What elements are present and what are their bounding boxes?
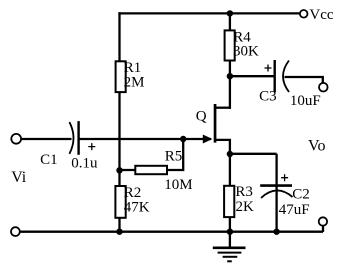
svg-text:10M: 10M bbox=[164, 177, 192, 193]
svg-text:C2: C2 bbox=[292, 187, 310, 203]
svg-text:R2: R2 bbox=[124, 185, 142, 201]
svg-text:47uF: 47uF bbox=[279, 202, 310, 218]
svg-text:Vi: Vi bbox=[11, 169, 27, 186]
svg-text:Vo: Vo bbox=[308, 137, 326, 154]
svg-text:R3: R3 bbox=[235, 184, 253, 200]
svg-text:2K: 2K bbox=[236, 199, 255, 215]
svg-text:30K: 30K bbox=[233, 44, 259, 60]
svg-text:Q: Q bbox=[196, 109, 207, 125]
svg-text:0.1u: 0.1u bbox=[71, 156, 98, 172]
svg-text:47K: 47K bbox=[124, 200, 150, 216]
svg-text:R5: R5 bbox=[165, 149, 183, 165]
svg-text:C3: C3 bbox=[259, 89, 277, 105]
svg-text:10uF: 10uF bbox=[290, 93, 321, 109]
svg-text:Vcc: Vcc bbox=[309, 7, 333, 23]
svg-text:C1: C1 bbox=[40, 152, 58, 168]
svg-text:2M: 2M bbox=[124, 75, 145, 91]
